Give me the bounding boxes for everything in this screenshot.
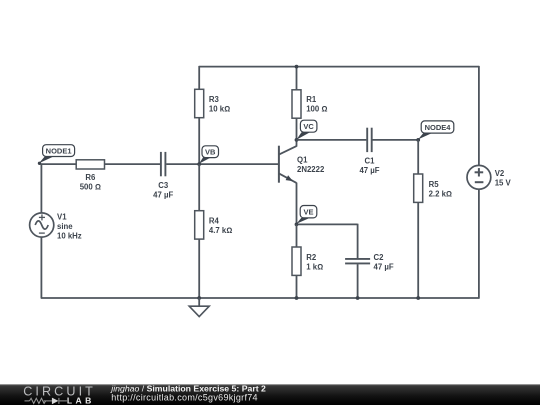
svg-text:10 kHz: 10 kHz [57, 232, 82, 241]
svg-text:C1: C1 [365, 156, 376, 165]
svg-text:R1: R1 [306, 95, 317, 104]
wire left column to V1 [40, 163, 42, 213]
junction dot NODE4 [416, 138, 420, 142]
wire C2 bottom lead [357, 264, 359, 298]
resistor R2 [292, 247, 323, 275]
svg-text:47 µF: 47 µF [359, 166, 379, 175]
footer bar [0, 384, 540, 405]
svg-text:4.7 kΩ: 4.7 kΩ [209, 226, 232, 235]
svg-text:Q1: Q1 [297, 156, 308, 165]
svg-text:15 V: 15 V [495, 178, 512, 187]
resistor R1 [292, 90, 327, 118]
wire C3 to VB [166, 163, 199, 165]
node NODE1 [38, 145, 75, 165]
wire bottom rail [41, 297, 479, 299]
node NODE4 [418, 121, 454, 139]
resistor R3 [195, 89, 230, 117]
junction dot R5 bottom [416, 296, 420, 300]
svg-text:10 kΩ: 10 kΩ [209, 105, 230, 114]
junction dot VB [197, 162, 201, 166]
wire V2 top lead [478, 66, 480, 166]
transistor Q1 [279, 140, 325, 183]
junction dot ground [197, 296, 201, 300]
svg-text:47 µF: 47 µF [153, 190, 173, 199]
wire top rail [199, 66, 479, 68]
voltage source V1 [30, 212, 82, 240]
wire V1 to bottom rail [40, 237, 42, 298]
ground [189, 298, 209, 317]
wire R1 bottom lead [296, 118, 298, 140]
svg-text:LAB: LAB [67, 396, 95, 405]
svg-text:R4: R4 [209, 216, 220, 225]
capacitor C1 [359, 128, 379, 175]
node VB [199, 146, 218, 164]
svg-text:C3: C3 [158, 181, 169, 190]
svg-text:1 kΩ: 1 kΩ [306, 263, 323, 272]
wire VB to Q1 base [199, 163, 279, 165]
wire R2 bottom lead [296, 275, 298, 298]
wire collector rail VC to C1 [297, 139, 367, 141]
svg-text:R3: R3 [209, 95, 220, 104]
wire R1 top lead [296, 67, 298, 90]
capacitor C2 [345, 253, 394, 272]
junction dot collector [295, 138, 299, 142]
junction dot top rail / R1 [295, 65, 299, 69]
svg-text:R5: R5 [429, 180, 440, 189]
svg-text:500 Ω: 500 Ω [80, 183, 101, 192]
CircuitLab logo [23, 385, 96, 405]
resistor R4 [195, 211, 233, 239]
svg-text:http://circuitlab.com/c5gv69kj: http://circuitlab.com/c5gv69kjgrf74 [111, 393, 258, 403]
junction dot C2 bottom [356, 296, 360, 300]
node VE [296, 206, 316, 224]
capacitor C3 [153, 152, 173, 200]
svg-text:R6: R6 [85, 173, 96, 182]
wire R3 top lead [198, 66, 200, 89]
svg-text:100 Ω: 100 Ω [306, 105, 327, 114]
wire NODE4 to R5 [417, 140, 419, 174]
junction dot R2 bottom [295, 296, 299, 300]
node VC [296, 120, 317, 140]
wire R3 bottom lead [198, 118, 200, 164]
wire R4 bottom lead [198, 239, 200, 298]
svg-text:NODE4: NODE4 [425, 123, 452, 132]
wire R5 bottom lead [417, 202, 419, 298]
svg-text:VE: VE [303, 208, 313, 217]
svg-text:R2: R2 [306, 253, 317, 262]
resistor R5 [414, 174, 452, 202]
svg-text:VC: VC [303, 122, 314, 131]
resistor R6 [76, 160, 104, 192]
junction dot VE [295, 223, 299, 227]
svg-text:V2: V2 [495, 169, 505, 178]
svg-text:2.2 kΩ: 2.2 kΩ [429, 189, 452, 198]
wire R6 to C3 [105, 163, 161, 165]
svg-text:V1: V1 [57, 212, 67, 221]
svg-text:sine: sine [57, 222, 73, 231]
wire VB to R4 [198, 164, 200, 211]
svg-text:VB: VB [205, 148, 216, 157]
wire VE rail [297, 223, 358, 225]
svg-text:NODE1: NODE1 [46, 147, 72, 156]
svg-text:2N2222: 2N2222 [297, 165, 325, 174]
wire base rail: node1 corner to R6 [41, 163, 76, 165]
wire C1 to NODE4 [373, 139, 419, 141]
wire Q1 emitter to VE [296, 183, 298, 225]
wire V2 to bottom rail [478, 189, 480, 299]
svg-text:C2: C2 [374, 253, 385, 262]
wire VE to R2 [296, 224, 298, 247]
wire C2 top lead [357, 224, 359, 258]
voltage source V2 [467, 165, 512, 189]
svg-text:47 µF: 47 µF [374, 263, 394, 272]
